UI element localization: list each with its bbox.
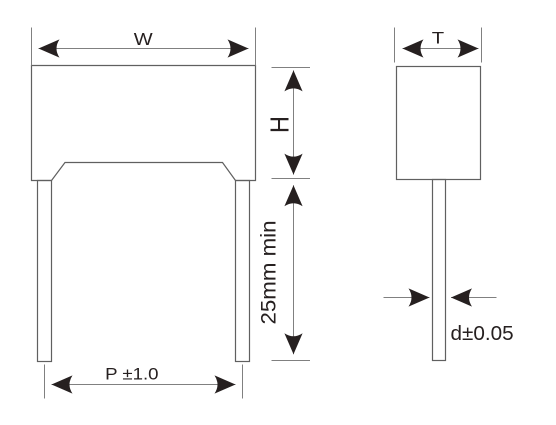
svg-text:T: T xyxy=(432,29,444,47)
svg-text:W: W xyxy=(134,29,153,49)
svg-text:P ±1.0: P ±1.0 xyxy=(105,364,158,383)
svg-text:d±0.05: d±0.05 xyxy=(451,323,514,345)
svg-text:25mm min: 25mm min xyxy=(257,221,280,325)
svg-text:H: H xyxy=(267,116,295,133)
